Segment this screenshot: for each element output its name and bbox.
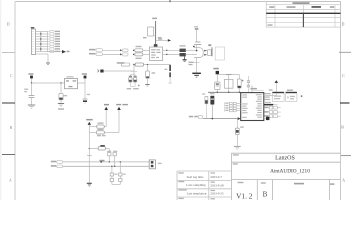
ground C1	[28, 105, 35, 108]
diode D1	[215, 82, 220, 92]
label MICIN	[117, 62, 125, 64]
svg-text:AtmAUDIO_1210: AtmAUDIO_1210	[270, 168, 310, 174]
wire U3 out2	[163, 53, 180, 55]
capacitor C4	[180, 45, 186, 52]
arrow jack tip	[204, 50, 207, 52]
arrow jack ring	[204, 54, 207, 56]
info row3 date 2023-9-25	[210, 192, 224, 196]
info row1 label	[178, 172, 184, 173]
junction SPK+ rail	[100, 160, 105, 163]
plus mark C10	[242, 80, 244, 82]
wire IC pin row2	[236, 105, 241, 107]
revision table header DATE	[287, 6, 296, 8]
net port mic	[100, 70, 103, 73]
junction SPK+ C14	[109, 161, 110, 162]
wire C5 to jack	[186, 53, 197, 55]
wire IC pin row1	[236, 103, 241, 105]
info row4 label	[178, 198, 215, 200]
net label VIN	[28, 73, 33, 74]
svg-text:A: A	[9, 178, 12, 182]
revision table row entry	[268, 24, 273, 26]
connector J3 speaker	[149, 160, 161, 169]
svg-text:Last simulation: Last simulation	[187, 192, 207, 196]
revision table header DESCRIPTION	[312, 6, 322, 8]
net bar AVDD	[264, 102, 278, 106]
capacitor C8	[146, 64, 156, 84]
wire cap pair join	[130, 85, 135, 87]
power flag up 1	[104, 107, 108, 127]
revision table header REV	[269, 6, 274, 8]
svg-text:2023-9-25: 2023-9-25	[210, 192, 224, 196]
zone tick right B/A	[341, 155, 351, 157]
zone tick right D/C	[339, 51, 351, 53]
wire ground rail crystal	[208, 91, 241, 93]
svg-text:Seal log time: Seal log time	[187, 175, 204, 179]
resistor network rows	[225, 102, 237, 112]
title block title label	[233, 163, 238, 164]
arrow into U1	[238, 117, 241, 120]
ground rail	[87, 183, 92, 186]
junction power rail mid	[60, 82, 61, 83]
wire U3 out1	[163, 49, 180, 51]
pin number 4 label	[301, 95, 303, 97]
wire J1 pin 5	[36, 41, 48, 43]
zone letter A left	[9, 178, 12, 182]
info row1 name Seal log time	[187, 175, 204, 179]
net label P1UL	[116, 104, 128, 105]
junction jack wire	[196, 50, 198, 52]
wire filter join	[112, 183, 120, 185]
ground C5	[183, 56, 187, 61]
svg-text:2023-9-28: 2023-9-28	[210, 183, 224, 187]
svg-text:C: C	[10, 74, 13, 78]
svg-text:C: C	[342, 74, 345, 78]
net label L_P	[104, 104, 109, 106]
wire J1 pin 4	[36, 38, 48, 40]
wire crystal rail	[217, 74, 239, 76]
zone letter C left	[10, 74, 13, 78]
title block page header	[330, 183, 335, 184]
RC filter row 1	[264, 106, 280, 109]
title block version V1.2	[236, 191, 253, 200]
wire AIN_R	[103, 53, 122, 55]
svg-text:B: B	[341, 126, 344, 130]
junction jack left	[193, 46, 195, 48]
zone letter B left	[10, 126, 13, 130]
net label stub pin 3	[48, 35, 61, 37]
wire J1 pin 8	[36, 48, 48, 50]
revision table thick divider	[266, 12, 340, 14]
wire IC pin row3	[236, 107, 241, 109]
net label XIN	[213, 68, 219, 70]
revision table title text	[293, 2, 310, 4]
net flag arrow right	[158, 39, 171, 42]
wire J1 pin 7	[36, 46, 48, 48]
info row3 label	[178, 189, 187, 190]
label filter 2	[123, 174, 126, 175]
net label AIN_R	[89, 53, 103, 56]
revision table header BY	[330, 6, 335, 8]
wire mic branch down	[131, 65, 138, 75]
power flag PB	[269, 80, 278, 95]
junction D1 rail	[217, 92, 218, 93]
net flag mic	[97, 70, 99, 73]
wire J1 pin 6	[36, 43, 48, 45]
net label stub pin 8	[48, 48, 61, 50]
wire J1 pin 9	[36, 51, 48, 53]
zone tick top	[169, 0, 171, 2]
wire row R8	[89, 131, 119, 133]
zone letter D left	[7, 23, 10, 27]
info row2 date 2023-9-28	[210, 183, 224, 187]
component FB2	[123, 53, 129, 56]
title block frame	[232, 153, 341, 200]
svg-text:B: B	[10, 126, 13, 130]
junction cross 1	[40, 32, 41, 37]
ground J1	[46, 63, 50, 64]
op-amp U1 designator	[250, 86, 263, 93]
wire J1 pin 1	[36, 31, 48, 33]
junction power rail left	[31, 82, 32, 83]
ground C8	[145, 85, 149, 86]
svg-text:D: D	[7, 23, 10, 27]
wire rail bottom	[87, 149, 92, 184]
wire rail mid	[88, 127, 90, 133]
wire J1 pin 3	[36, 36, 48, 38]
svg-text:V1. 2: V1. 2	[236, 191, 253, 200]
zone letter B right	[341, 126, 344, 130]
wire to flag	[156, 39, 168, 41]
junction out1	[166, 50, 167, 51]
audio jack plug	[194, 48, 203, 58]
capacitor C16	[194, 29, 201, 51]
label C6 value	[127, 88, 132, 89]
junction cross 2	[40, 37, 41, 42]
resistor R7	[97, 122, 104, 130]
zone tick left D/C	[2, 52, 15, 54]
zone letter A right	[342, 178, 345, 182]
resistor R9	[98, 145, 105, 150]
plus mark C7	[138, 85, 140, 87]
capacitor C11	[247, 76, 250, 92]
title block size header	[261, 182, 266, 183]
net port XIN	[216, 71, 219, 82]
capacitor C1	[24, 83, 34, 105]
ground R6	[234, 146, 241, 149]
wire to output flag	[48, 51, 63, 53]
capacitor C7 electrolytic	[133, 76, 136, 86]
component FB1	[123, 49, 129, 52]
net port VCC	[84, 76, 87, 83]
wire I2S bus	[203, 118, 238, 120]
connector J2 headphone	[208, 44, 225, 60]
wire row R9	[89, 148, 110, 153]
junction C10 rail	[239, 92, 240, 93]
wire cap pair feed	[130, 75, 135, 77]
zone letter D right	[342, 22, 345, 26]
junction C13 wire	[212, 118, 214, 120]
net label right row2	[265, 96, 270, 97]
zone tick right C/B	[340, 102, 350, 104]
net label SPK+	[51, 161, 63, 164]
resistor R3	[135, 63, 143, 66]
net label right row1	[265, 93, 271, 94]
capacitor C3	[83, 83, 90, 104]
info row3 name Last simulation	[187, 192, 207, 196]
title block sheet header	[294, 183, 304, 185]
net label stub pin 2	[48, 33, 61, 35]
svg-text:D: D	[342, 22, 345, 26]
op-amp U3	[150, 47, 163, 61]
label C7 value	[133, 88, 139, 89]
sheet outer border	[0, 0, 2, 200]
feedback designator	[152, 18, 157, 20]
capacitor C6 electrolytic	[129, 76, 132, 86]
capacitor C2 electrolytic	[59, 83, 67, 103]
wire AIN_L	[103, 49, 122, 51]
info row1 date label	[211, 172, 216, 173]
wire power rail	[32, 82, 86, 84]
wire rail lower	[88, 132, 90, 148]
info row3 date label	[211, 190, 216, 191]
wire SPK-	[63, 165, 150, 167]
net label stub pin 9	[48, 50, 61, 52]
net label stub pin 5	[48, 40, 61, 42]
label U4 right	[158, 37, 162, 38]
net port VIN	[30, 76, 33, 83]
capacitor C10	[237, 75, 241, 93]
wire IC pin row4	[236, 110, 241, 112]
net port above U3	[154, 44, 158, 47]
net label stub pin 7	[48, 45, 61, 47]
wire R2 to U3	[143, 53, 150, 55]
wire C4 to jack	[186, 49, 197, 51]
title block company label	[233, 154, 239, 155]
speaker filter FL2	[286, 90, 297, 102]
filter branch 1	[110, 166, 113, 185]
RC filter row 3	[264, 115, 280, 118]
title block size B	[263, 191, 268, 199]
wire jack sleeve down	[196, 58, 198, 74]
crystal Y1	[224, 75, 233, 93]
resistor R6	[235, 119, 243, 147]
op-amp U1 body	[241, 93, 264, 121]
arrow AIN_R	[120, 53, 122, 55]
RC filter row 2	[264, 111, 280, 114]
wire R1 to U3	[143, 49, 150, 51]
svg-text:A: A	[342, 178, 345, 182]
resistor R1	[135, 46, 143, 52]
resistor R2	[135, 53, 143, 59]
wire U1 right row	[264, 95, 277, 97]
net label stub pin 1	[48, 30, 61, 32]
capacitor C14	[107, 151, 111, 162]
net label right row3	[265, 99, 271, 100]
info row1 date 2023-9-7	[210, 175, 222, 179]
ground C2	[58, 104, 64, 110]
net port U1 bottom	[264, 117, 270, 120]
resistor R8	[96, 131, 105, 136]
label filter 1	[114, 174, 117, 175]
net label VBAT	[86, 119, 93, 121]
wire row R7	[89, 125, 106, 127]
junction row1	[133, 50, 134, 51]
svg-text:LanzOS: LanzOS	[275, 155, 295, 161]
junction cross 3	[40, 42, 41, 47]
component U4 box	[148, 27, 156, 36]
wire SPK+	[63, 161, 150, 163]
title block version header	[238, 182, 244, 183]
svg-text:Last compiling: Last compiling	[186, 183, 206, 187]
info row2 name Last compiling	[186, 183, 206, 187]
title block title AtmAUDIO_1210	[270, 168, 310, 174]
power flag up 3	[88, 122, 91, 125]
svg-text:2023-9-7: 2023-9-7	[210, 175, 222, 179]
capacitor C15	[113, 151, 117, 167]
net label SPK-	[51, 165, 63, 168]
connector J1 designator	[31, 27, 35, 29]
wire J1 bus vertical	[47, 31, 49, 52]
ground jack	[192, 73, 201, 77]
info row2 label	[178, 181, 184, 182]
capacitor C13 tantalum	[210, 93, 215, 119]
wire J1 bottom	[36, 54, 49, 63]
svg-text:B: B	[263, 191, 268, 199]
junction SPK- C15	[114, 166, 115, 167]
revision table dark column line	[302, 13, 304, 27]
capacitor C12 electrolytic	[202, 93, 208, 118]
wire feedback vertical	[155, 21, 157, 44]
capacitor C5	[180, 53, 186, 56]
net label AIN_L	[89, 49, 103, 52]
wire J1 pin 2	[36, 33, 48, 35]
power bar above jack	[194, 26, 198, 29]
filter branch 2	[119, 161, 122, 184]
zone letter C right	[342, 74, 345, 78]
net label stub pin 6	[48, 43, 61, 45]
title block company name LanzOS	[275, 155, 295, 161]
info row2 date label	[211, 182, 216, 183]
net label VCC	[82, 73, 87, 74]
arrow AIN_L	[120, 49, 122, 51]
junction Y1 rail	[228, 92, 229, 93]
net flag arrow	[62, 50, 70, 53]
zone tick left C/B	[2, 102, 15, 104]
junction mic row	[133, 64, 135, 66]
wire mic bias	[104, 70, 134, 72]
net label stub pin 4	[48, 38, 61, 40]
inductor L1 label	[189, 62, 200, 66]
junction out2	[166, 54, 167, 55]
speaker filter FL1	[272, 92, 284, 102]
label U4 left	[143, 37, 147, 38]
capacitor C9 polarized	[165, 65, 172, 83]
design info table frame	[177, 171, 232, 200]
power flag up 2	[117, 107, 121, 133]
junction row2	[133, 54, 134, 55]
junction cross 4	[40, 47, 41, 52]
sheet inner border	[15, 2, 341, 201]
component FB3	[121, 63, 130, 66]
zone tick left B/A	[2, 154, 15, 156]
connector J1 body	[32, 29, 36, 55]
net label I2S	[189, 116, 203, 119]
regulator U2	[65, 76, 78, 89]
revision history table	[266, 1, 340, 27]
wire mic row right	[144, 64, 171, 66]
